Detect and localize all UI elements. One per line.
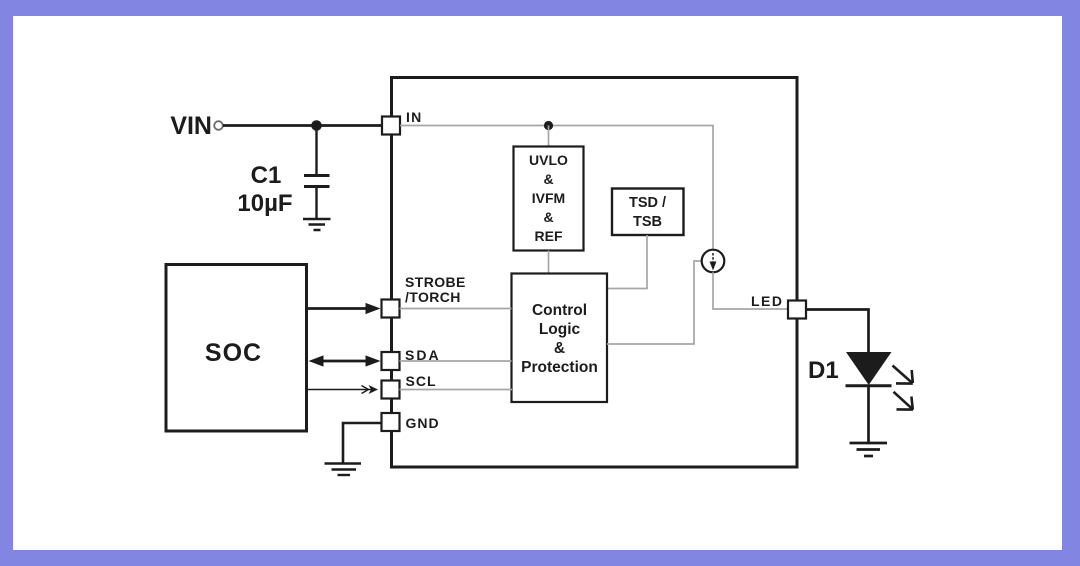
wire node to capacitor C1 [315,126,317,175]
svg-text:10µF: 10µF [237,190,292,217]
svg-text:SCL: SCL [406,373,437,389]
svg-text:UVLO: UVLO [529,152,568,168]
svg-text:IVFM: IVFM [532,190,565,206]
svg-text:Logic: Logic [539,321,581,338]
diode D1 [846,352,892,385]
wire TSD to Control block [608,235,647,289]
svg-text:&: & [543,171,553,187]
light emission arrow 2 of D1 [894,392,914,410]
svg-text:Control: Control [532,302,587,319]
svg-text:VIN: VIN [170,112,212,140]
wire Control block to current source [607,261,702,344]
svg-text:REF: REF [535,228,563,244]
wire capacitor C1 to ground [315,187,317,219]
wire SCL pin to Control (gray) [400,389,513,391]
SOC block [166,265,307,432]
pin IN [382,117,400,135]
svg-text:&: & [554,340,565,357]
svg-text:SOC: SOC [205,339,262,367]
arrow SOC to SCL (thin, double chevron) [306,389,374,391]
block TSD/TSB [612,189,684,236]
ground under C1 [303,219,331,230]
wire current source to LED pin [713,272,788,309]
current source symbol [702,250,725,273]
svg-text:LED: LED [751,293,784,309]
wire LED pin to diode D1 [806,310,869,353]
wire UVLO to Control block [548,251,550,274]
svg-text:&: & [543,209,553,225]
svg-text:TSD /: TSD / [629,195,666,211]
arrow SOC-SDA bidirectional [317,360,370,363]
IC U1 outline [392,78,798,468]
svg-text:TSB: TSB [633,214,662,230]
svg-text:Protection: Protection [521,359,598,376]
light emission arrow 1 of D1 [893,366,913,384]
pin GND [382,413,400,431]
capacitor C1 plates [304,176,330,187]
svg-text:GND: GND [406,415,440,431]
junction dot at VIN/C1 node [311,120,322,131]
pin LED [788,301,806,319]
svg-text:C1: C1 [251,162,282,189]
pin SCL [382,381,400,399]
svg-text:IN: IN [406,109,422,125]
wire VIN to IN pin [223,124,383,127]
ground under D1 [850,443,888,456]
node VIN terminal circle [214,121,223,130]
wire GND pin to ground [343,423,382,463]
wire junction to UVLO block [548,126,550,147]
arrow SOC to STROBE [306,307,368,310]
pin SDA [382,352,400,370]
wire IN internal (gray) to current source [400,126,713,251]
pin STROBE/TORCH [382,300,400,318]
ground under GND pin [325,464,362,476]
svg-text:/TORCH: /TORCH [405,289,461,305]
wire SDA pin to Control (gray) [400,360,512,362]
wire STROBE pin to Control (gray) [400,308,512,310]
wire diode D1 to ground [867,386,870,442]
block UVLO/IVFM/REF [514,147,584,251]
svg-text:STROBE: STROBE [405,274,466,290]
junction dot above UVLO [544,121,553,130]
svg-text:D1: D1 [808,357,839,384]
block Control Logic & Protection [512,274,608,403]
